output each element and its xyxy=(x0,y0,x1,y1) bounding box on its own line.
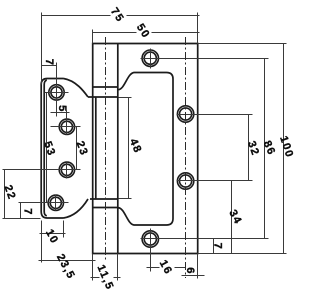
svg-text:6: 6 xyxy=(184,267,196,273)
svg-text:7: 7 xyxy=(22,208,34,214)
svg-text:7: 7 xyxy=(211,243,223,249)
svg-text:5: 5 xyxy=(56,105,68,111)
svg-text:7: 7 xyxy=(43,59,55,65)
